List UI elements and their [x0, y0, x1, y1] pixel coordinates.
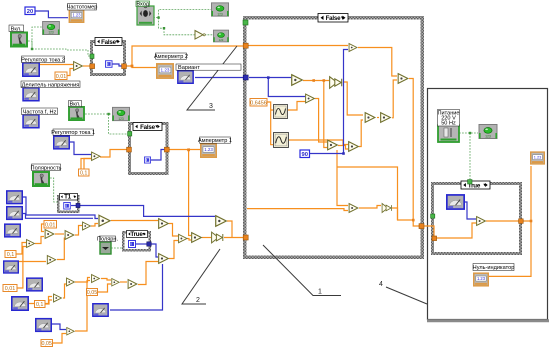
control: switch Вкл.2	[69, 107, 84, 120]
svg-text:Нуль-индикатор: Нуль-индикатор	[473, 265, 515, 271]
operator: multiplier E	[47, 256, 55, 264]
wire: adder B to adder C	[55, 233, 64, 235]
wire: constant 0,6456 to sine inputs	[266, 102, 273, 145]
selector label of right case	[461, 181, 490, 189]
control: meter G	[36, 319, 51, 332]
tunnel: case 2 right numeric	[164, 147, 169, 152]
wire: comparator Gg to right case output tunnel	[486, 220, 519, 222]
svg-text:Вход: Вход	[136, 2, 149, 8]
svg-text:0,01: 0,01	[45, 222, 56, 228]
label: Частотомер	[67, 4, 98, 11]
operator: operator Bb	[381, 113, 391, 123]
label: Регулятор тока 2	[21, 56, 65, 63]
wire: convert Aa to operator Cc	[343, 82, 363, 115]
operator: operator S	[99, 215, 110, 226]
operator: convert W	[212, 232, 223, 243]
wire: operator H to operator L	[101, 279, 111, 281]
operator: operator V	[192, 233, 202, 243]
wire: constant 0,01 (lower) up to adder A	[17, 247, 26, 289]
svg-text:0,6456: 0,6456	[250, 100, 267, 106]
function: sine waveform 1	[274, 105, 288, 119]
constant: case 2 inner block	[144, 157, 150, 163]
wire: multiplier J up to operator H	[75, 281, 90, 332]
wire: operator U to operator V	[187, 239, 191, 241]
wire: inside case 1 (blue)	[112, 64, 122, 66]
tunnel: right case orange left	[432, 236, 437, 241]
case structure: case 1 (top left, False)	[90, 40, 126, 76]
wire: constant 20 to frequency meter (blue)	[35, 11, 68, 18]
operator: operator D	[83, 222, 91, 230]
wire: meter G to multiplier J (blue)	[52, 324, 66, 330]
control: meter Частота f, Hz	[23, 115, 39, 128]
svg-text:True: True	[130, 231, 143, 238]
wire: border wire to multiplier T2a lower input	[247, 209, 348, 211]
constant: case 1 inner block	[105, 61, 112, 68]
wire: main case tunnel to divider T1a	[248, 45, 348, 47]
wire: right case output to voltmeter and null indicator	[489, 166, 531, 276]
wire: sine 2 output to operator Dd	[289, 140, 348, 145]
node: orange junction at T2b riser	[412, 219, 415, 222]
wire: multiplier T2b output joining right tunnel riser	[392, 208, 413, 220]
wire: boolean net from switch Вкл.2	[85, 114, 129, 134]
wire: operator S output to operator T	[111, 220, 158, 222]
svg-text:False: False	[101, 39, 117, 46]
wire: boolean from Полярность to T1	[50, 178, 58, 202]
subVI: LED indicator 1	[43, 21, 60, 34]
constant: 0,6456	[250, 99, 267, 107]
wire: case 3 output to operator X (blue)	[151, 244, 158, 257]
wire: inside case 2 (blue)	[151, 150, 166, 161]
operator: operator G	[67, 278, 75, 286]
operator: adder B	[45, 230, 54, 239]
svg-text:Амперметр 2: Амперметр 2	[154, 54, 188, 60]
control: meter in right case	[447, 195, 464, 209]
label: Делитель напряжения	[21, 81, 80, 88]
wire: multiplier Z to convert Aa	[303, 80, 329, 82]
operator: comparator Gg	[477, 217, 486, 226]
tunnel: main case left blue	[243, 75, 248, 80]
control: meter H	[93, 304, 108, 317]
node: blue junction at constant 90	[342, 152, 345, 155]
wire: T1 output to operator P (blue)	[80, 206, 216, 217]
svg-text:Регулятор тока 2: Регулятор тока 2	[21, 57, 65, 63]
operator: operator Y	[306, 94, 315, 103]
operator: multiplier Z	[292, 75, 303, 86]
wire: operator V to convert W	[202, 237, 211, 239]
svg-text:Вкл.: Вкл.	[11, 26, 23, 32]
control: Питание meter icon	[438, 125, 459, 142]
case structure: main simulation case (big, center)	[243, 16, 424, 259]
svg-text:3: 3	[209, 103, 213, 110]
wire: Регулятор тока 1 to multiply 2 (blue)	[70, 142, 91, 155]
wire: meter stack B output (blue pair lower)	[23, 214, 93, 219]
svg-text:Полярн.: Полярн.	[97, 236, 119, 242]
case structure: case 3 (bottom middle, True)	[122, 231, 151, 252]
subVI: LED indicator 6	[479, 125, 497, 139]
operator: adder A	[27, 240, 35, 248]
operator: operator Dd	[349, 142, 359, 152]
operator: operator H	[92, 275, 100, 283]
wire: right case tunnel to comparator Gg	[436, 223, 476, 238]
svg-text:0,1: 0,1	[80, 171, 88, 177]
node: junction of case 1 output	[131, 65, 134, 68]
tunnel: case 3 right blue	[147, 242, 151, 246]
tunnel: main case right numeric	[419, 224, 424, 229]
indicator: Амперметр 1 display	[201, 144, 216, 157]
svg-text:2: 2	[196, 297, 200, 304]
wire: operator Ff output to right tunnel of main case	[409, 79, 420, 227]
operator: operator X	[159, 254, 169, 264]
label: Питание 220 V 50 Hz	[437, 110, 459, 127]
subVI: LED indicator 3	[112, 107, 129, 120]
tunnel: right case orange right	[519, 219, 524, 224]
wire: operator T to operator U	[169, 224, 178, 237]
function: sine waveform 2	[274, 133, 289, 148]
operator: operator U	[179, 234, 187, 242]
wire: constant 0,05 to multiplier J	[52, 334, 66, 344]
operator: operator Cc	[365, 113, 375, 123]
svg-text:T1: T1	[64, 194, 72, 201]
operator: multiplier Fm	[54, 294, 62, 302]
tunnel: right case green top	[468, 180, 472, 184]
case structure: null-indicator case (right, True)	[431, 182, 522, 255]
wire: divider T1a to operator Ff	[358, 48, 397, 77]
wire: case 2 output to ammeter 1 and comparison chain	[169, 150, 200, 236]
selector label of case 1	[95, 38, 122, 46]
wire: constant 0,05 to operator L	[97, 284, 111, 292]
tunnel: case 2 left numeric	[127, 147, 132, 152]
wire: main case blue tunnel to multiplier Z and operator Y	[249, 78, 305, 97]
wire: meter stack A output (blue pair upper)	[23, 197, 98, 219]
constant: 0,1 (bottom mid)	[35, 301, 46, 309]
operator: multiplier M	[128, 280, 137, 289]
wire: adder A to adder B	[35, 237, 44, 244]
label: Нуль-индикатор	[473, 264, 515, 272]
svg-text:0,05: 0,05	[41, 341, 52, 347]
wire: operator Dd up to operator Cc lower input	[359, 120, 363, 147]
operator: operator L	[112, 279, 119, 286]
wire: boolean net from Питание icon	[459, 133, 478, 181]
wire: branch up to LED subVI 1	[32, 27, 42, 49]
svg-text:Амперметр 1: Амперметр 1	[198, 138, 232, 144]
control: meter stack C	[5, 224, 20, 237]
wire: inside case 3 (blue)	[136, 243, 148, 245]
node: junctions of Вход net	[157, 16, 159, 18]
tunnel: main case left numeric lower	[243, 235, 248, 240]
operator: multiplier T2a	[349, 204, 358, 213]
wire: meter F to multiplier Fm	[29, 297, 52, 304]
indicator: Амперметр 2 display	[157, 64, 173, 78]
constant: T1 inner block	[64, 202, 71, 209]
callout line 4	[386, 287, 427, 304]
wire: meter H long riser (blue)	[110, 264, 163, 310]
indicator: Частотомер display	[69, 10, 83, 23]
wire: multiply 2 to case 2 tunnel	[100, 150, 127, 158]
wire: boolean net from switch Вкл.1	[28, 41, 91, 56]
control: Полярность 2 small icon	[100, 242, 111, 254]
control: meter D	[4, 261, 19, 273]
label: Полярность	[31, 164, 62, 171]
tunnel: case 1 boolean selector input	[90, 54, 94, 59]
svg-text:20: 20	[27, 9, 33, 15]
svg-text:Делитель напряжения: Делитель напряжения	[22, 82, 80, 88]
constant: 0,1 (mid)	[79, 169, 90, 177]
control: switch Полярность	[33, 172, 49, 186]
operator: multiply 2	[92, 152, 100, 160]
label: Вкл. 1	[9, 25, 24, 32]
wire: constant 0,01 to multiply 1	[67, 69, 73, 76]
control: meter Вариант	[178, 71, 193, 84]
callout line 3	[187, 46, 237, 110]
subVI: LED indicator 4	[211, 3, 228, 16]
svg-text:90: 90	[301, 152, 307, 158]
node: junction at ammeter 1 branch	[187, 148, 190, 151]
label: Регулятор тока 1	[51, 129, 95, 136]
wire: operator Cc to operator Bb	[377, 117, 379, 119]
svg-text:Вариант: Вариант	[178, 65, 200, 71]
operator: operator P	[216, 216, 227, 227]
wire: multiplier T2a to T2b	[359, 206, 381, 209]
node: junction of Вкл.2 net	[107, 113, 109, 115]
wire: constant 0,1 to multiplier Fm	[45, 300, 52, 304]
svg-text:50 Hz: 50 Hz	[441, 120, 456, 126]
wire: Вариант to main case tunnel (blue)	[195, 77, 244, 79]
tunnel: case 1 left numeric	[90, 64, 95, 69]
selector label of case 2	[133, 123, 162, 131]
operator: multiply 1	[74, 62, 83, 71]
operator: not gate	[195, 31, 205, 40]
constant: 20	[25, 7, 35, 15]
svg-text:0,01: 0,01	[5, 286, 16, 292]
wire: meter D to multiplier E	[19, 261, 46, 263]
constant: 0,01 (bottom left)	[3, 285, 17, 293]
wire: convert W to main case tunnel	[224, 237, 244, 239]
svg-text:1: 1	[318, 289, 322, 296]
operator: operator Ff	[398, 74, 408, 84]
wire: constant 0,1 to multiply 2	[81, 159, 91, 170]
wire: Регулятор тока 2 to multiply 1	[40, 64, 73, 66]
node: junction of Вкл.1 net	[31, 48, 33, 50]
control: meter Регулятор тока 1	[54, 136, 69, 149]
wire: multiplier E to adder C lower input	[57, 238, 64, 260]
control: meter F	[12, 297, 28, 310]
constant: 0,01 (top)	[55, 72, 67, 80]
wire: constant 0,01 to adder B	[42, 224, 45, 232]
svg-text:0,01: 0,01	[56, 74, 67, 80]
control: switch Вкл.1	[11, 33, 27, 47]
constant: 0,05 (bottom)	[41, 340, 53, 348]
label: Амперметр 1	[198, 137, 232, 144]
svg-text:Частотомер: Частотомер	[67, 5, 98, 11]
label: Полярность 2	[97, 236, 119, 242]
control: meter Регулятор тока 2	[23, 63, 39, 76]
constant: case 3 inner block	[129, 241, 136, 248]
wire: operator Ee to operator Dd lower input	[338, 146, 348, 150]
case structure: case 2 (mid left, False)	[128, 122, 169, 175]
wire: operator G to operator H	[75, 278, 90, 283]
operator: convert T2b	[382, 204, 391, 213]
tunnel: main case selector terminal	[243, 20, 248, 25]
svg-text:False: False	[326, 15, 342, 22]
wire: case 1 output net to main case and ammeter 2	[126, 46, 244, 68]
wire: boolean net from Вход icon	[153, 10, 213, 35]
label: Вкл. 2	[69, 101, 82, 108]
right flat frame box	[427, 89, 549, 321]
wire: operator X to operator U lower input	[169, 241, 178, 259]
wire: constant 90 riser to divider T1a	[309, 50, 348, 154]
label: Вариант	[176, 64, 241, 71]
wire: operator Y down to operator Ee	[315, 99, 327, 143]
svg-text:Регулятор тока 1: Регулятор тока 1	[51, 130, 95, 136]
node: orange junctions on Z-Aa wire	[312, 79, 315, 82]
subVI: LED indicator 5	[213, 30, 228, 42]
svg-text:Полярность: Полярность	[31, 165, 62, 171]
operator: adder C	[65, 231, 74, 240]
tunnel: case 2 boolean selector input	[128, 132, 132, 137]
tunnel: main case left numeric upper	[243, 43, 248, 48]
control: meter stack B	[7, 207, 22, 220]
wire: boolean from Полярность 2 to case 3	[111, 247, 123, 249]
selector label of main case	[318, 14, 348, 23]
wire: main case right tunnel into right frame case tunnel	[424, 226, 434, 237]
wire: adder C to operator D	[75, 226, 82, 236]
wire: lower loop feed to multiplier T2a	[337, 150, 398, 220]
constant: 90	[300, 150, 310, 158]
node: junction of Питание net	[469, 132, 471, 134]
node: blue junction at Вариант tunnel	[267, 76, 270, 79]
tunnel: T1 right blue	[76, 203, 80, 207]
wire: constant 0,1 to adder A	[16, 243, 26, 255]
svg-text:0,1: 0,1	[36, 302, 44, 308]
label: Амперметр 2	[154, 53, 188, 60]
control: meter Делитель напряжения	[23, 88, 39, 101]
label: Частота f, Hz	[22, 108, 58, 115]
label: Вход	[136, 1, 150, 8]
svg-text:0,05: 0,05	[87, 290, 98, 296]
control: meter stack A	[7, 191, 22, 204]
constant: 0,1 (left low)	[5, 251, 16, 259]
svg-text:False: False	[140, 124, 156, 131]
wire: meter inside right case to comparator Gg (blue)	[465, 202, 476, 219]
svg-text:Частота f, Hz: Частота f, Hz	[23, 109, 57, 115]
operator: divider T1a	[349, 44, 357, 52]
tunnel: right case green left	[431, 214, 435, 218]
wire: inside T1 (blue)	[71, 205, 77, 207]
selector label of case 3	[127, 231, 148, 239]
constant: 0,01 (mid)	[44, 221, 57, 229]
wire: multiplier M up to operator X	[138, 262, 158, 285]
wire: operator L to multiplier M	[120, 281, 127, 283]
node: orange junction at right output	[530, 220, 533, 223]
callout line 2	[182, 249, 220, 304]
indicator: Нуль-индикатор display	[474, 273, 488, 286]
wire: multiply 1 to case 1 tunnel	[83, 65, 90, 67]
control: meter E	[27, 278, 42, 291]
operator: operator Ee	[328, 140, 338, 150]
svg-text:Вкл.: Вкл.	[69, 102, 81, 108]
constant: 0,05 (mid bottom)	[87, 289, 98, 297]
indicator: voltmeter display right	[531, 152, 545, 164]
svg-text:4: 4	[379, 281, 383, 288]
callout line 1	[263, 245, 341, 296]
selector label of T1	[60, 194, 78, 201]
wire: operator D to operator S	[91, 224, 98, 227]
operator: operator T	[159, 219, 169, 229]
tunnel: case 1 right numeric	[122, 64, 127, 69]
wire: branch of Z-Aa wire down to operator Ee lower input	[324, 81, 327, 148]
operator: multiplier J	[67, 328, 74, 335]
wire: operator P down to W output wire	[227, 221, 232, 238]
wire: sine 1 output to operator Y	[288, 102, 305, 111]
operator: convert Aa	[330, 77, 342, 89]
case structure: timer T1 (small, left)	[57, 195, 80, 213]
wire: multiplier Fm to operator G	[63, 284, 66, 298]
wire: constant 0,1 to multiply 2	[84, 159, 91, 170]
svg-text:0,1: 0,1	[7, 252, 15, 258]
wire: operator Bb up to operator Ff lower input	[392, 80, 397, 118]
subVI: Вход icon	[137, 6, 154, 25]
